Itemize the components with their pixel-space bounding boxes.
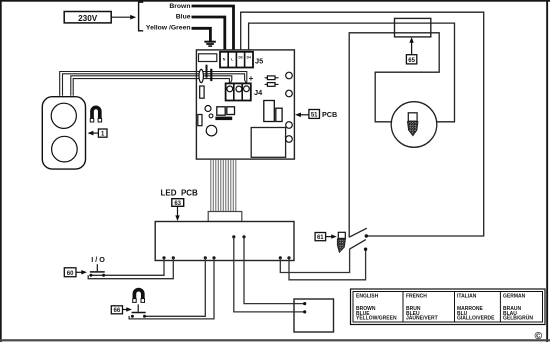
wire dot6 to aux box [244,237,305,304]
I/O switch [89,264,105,277]
svg-text:ENGLISH: ENGLISH [356,294,379,300]
photocell body [42,97,85,169]
wire J5-D4 to lamp (through box 65) [249,23,455,122]
main PCB outline [196,50,294,159]
language table [351,289,546,325]
svg-text:J5: J5 [255,57,263,66]
svg-text:D3: D3 [238,56,242,60]
diode comp 1 [265,76,279,80]
wire lamp-left to key switch [349,33,439,237]
svg-text:FRENCH: FRENCH [406,294,427,300]
wire dot4 to magnet switch [129,258,214,319]
svg-text:JAUNE/VERT: JAUNE/VERT [406,316,438,322]
small rect next to relay [276,108,282,121]
ribbon cable [211,160,236,212]
square comp 1 [217,107,225,115]
svg-text:©: © [535,330,543,342]
wire dot8 to key switch lower contact [289,249,366,280]
lamp (courtesy light) [391,102,437,148]
capacitor group on PCB left [199,65,212,83]
transformer rect [251,128,285,158]
mounting hole 4 [286,136,293,143]
wire dot3 to magnet switch [145,258,206,317]
wire dot5 to aux box [234,237,305,312]
svg-text:Yellow /Green: Yellow /Green [146,25,191,32]
svg-text:I / O: I / O [91,255,105,264]
label 60 [64,268,87,277]
label 61 [315,233,337,242]
svg-text:66: 66 [114,308,121,314]
svg-text:PCB: PCB [322,110,337,119]
230V supply box [64,12,111,24]
arrow 230V to bracket [111,15,136,20]
wire blue (to J5 N) [192,17,225,60]
svg-text:60: 60 [67,271,74,277]
svg-text:GIALLO/VERDE: GIALLO/VERDE [457,316,495,322]
mounting hole 3 [286,122,293,129]
label 66 [111,306,132,314]
svg-text:GELB/GRÜN: GELB/GRÜN [503,315,533,322]
key switch 61 upper lever [349,228,367,237]
mounting hole 2 [286,90,293,97]
label 51 PCB [295,110,337,120]
connector J4 [226,83,251,100]
small rect PCB left 1 [200,86,204,98]
svg-text:GERMAN: GERMAN [503,294,526,300]
magnet at switch 66 [133,290,145,303]
svg-text:Blue: Blue [176,14,191,21]
magnet switch 66 [131,304,146,317]
wire dot1 to I/O switch [91,258,164,276]
tiny circle [209,114,213,118]
ground [204,41,215,47]
wire dot7 to key switch lower pivot [280,249,349,272]
svg-text:63: 63 [174,201,181,207]
key symbol [337,232,345,252]
wire J5-D3 to key switch (right loop) [241,12,484,238]
wire brown (to J5 L) [192,6,234,60]
square comp 2 [227,107,235,115]
ribbon connector collar [208,212,242,222]
small circle [205,106,211,112]
svg-text:230V: 230V [78,14,98,23]
LED PCB box [155,222,294,261]
key switch 61 lower lever [349,240,365,250]
svg-text:ITALIAN: ITALIAN [457,294,477,300]
svg-text:65: 65 [408,58,415,64]
svg-text:Brown: Brown [169,3,190,10]
black bar component [215,117,232,121]
svg-text:LED PCB: LED PCB [161,188,199,197]
small rect PCB left 2 [198,115,202,126]
wire dot2 to I/O switch [88,258,173,279]
svg-text:J4: J4 [254,88,263,97]
aux box [294,299,334,332]
wire yellow/green (to ground) [192,28,211,41]
svg-text:51: 51 [311,113,318,119]
PCB relay rect top-left [199,54,217,62]
label LED PCB [161,188,199,221]
magnet at photocell [90,107,101,122]
connector J5 [220,52,253,68]
label 65 [406,37,416,64]
tall relay rect [264,101,275,122]
svg-text:N: N [223,58,226,62]
photocell wires to J4 [60,72,247,96]
LED PCB terminal dots [162,235,290,259]
bracket [139,2,144,31]
svg-text:D4: D4 [247,56,251,60]
svg-text:+: + [249,74,254,83]
mounting hole top [286,72,293,79]
diode comp 2 [265,83,279,87]
big circle [206,125,217,136]
svg-text:YELLOW/GREEN: YELLOW/GREEN [356,316,397,322]
box 65 (lamp housing) [395,18,431,37]
label 1 with arrow [88,129,108,138]
svg-text:61: 61 [317,235,324,241]
